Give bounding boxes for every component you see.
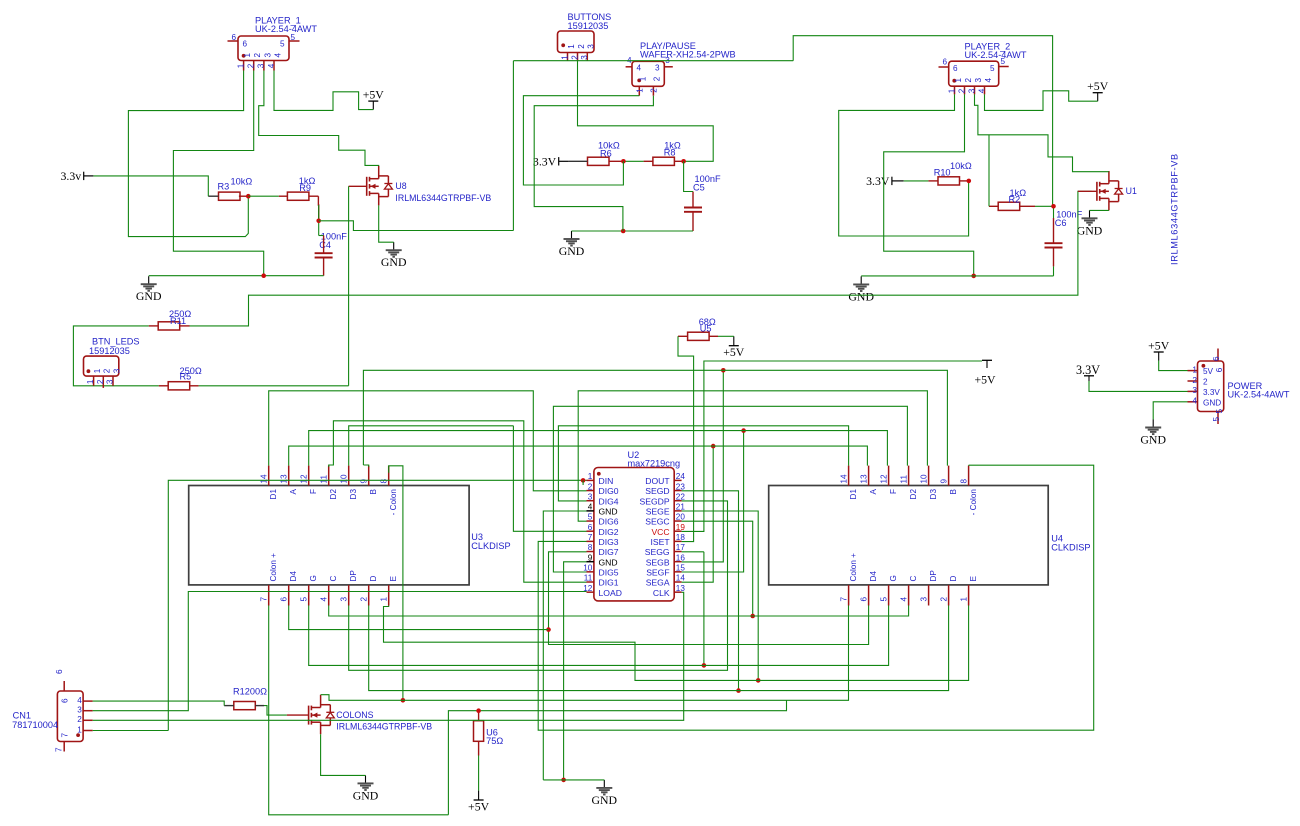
svg-text:1: 1 [954,78,963,83]
svg-text:A: A [869,488,878,494]
wire right ground rail [861,275,1053,277]
wire SEGE riser [682,511,759,680]
junction R3 right [246,194,251,199]
svg-text:SEGD: SEGD [645,486,669,496]
svg-text:GND: GND [592,793,618,807]
svg-text:7: 7 [61,733,70,738]
svg-text:10kΩ: 10kΩ [950,161,972,171]
svg-text:1: 1 [639,76,648,81]
3.3V supply right [866,174,892,188]
wire F bus [309,431,888,466]
wire VCC to +5V [682,361,982,531]
svg-text:GND: GND [353,788,379,802]
ground at POWER [1140,420,1166,447]
svg-text:4: 4 [637,64,642,73]
svg-text:2: 2 [96,379,105,384]
svg-text:D1: D1 [269,489,278,500]
svg-text:3: 3 [580,55,589,60]
svg-text:8: 8 [380,479,389,484]
connector CN1 781710004 [57,681,92,752]
wire SEGD riser [682,491,739,691]
svg-text:C: C [909,576,918,582]
svg-text:14: 14 [260,474,269,484]
svg-text:D3: D3 [929,489,938,500]
wire U3 D3 bus [349,426,514,466]
svg-text:+5V: +5V [723,345,745,359]
resistor U6 75ohm vertical [474,721,484,742]
svg-text:4: 4 [320,597,329,602]
svg-text:24: 24 [676,472,686,481]
wire mid ground rail to C5 [572,230,694,232]
wire U5 to +5V [718,335,734,337]
junction DIG7 D4 [546,627,551,632]
svg-text:250Ω: 250Ω [169,309,191,319]
wire BUTTONS pin2 to R8 node [578,61,714,162]
svg-text:DIG0: DIG0 [599,486,619,496]
wire G bus [309,606,889,666]
svg-text:21: 21 [676,503,686,512]
svg-text:2: 2 [957,88,966,93]
svg-text:18: 18 [676,533,686,542]
svg-text:COLONS: COLONS [336,710,373,720]
junction R10 right [967,179,972,184]
svg-text:3: 3 [919,597,928,602]
svg-text:3.3V: 3.3V [866,174,890,188]
junction U6 top [476,708,481,713]
svg-text:6: 6 [588,523,593,532]
svg-text:10: 10 [340,474,349,484]
svg-text:IRLML6344GTRPBF-VB: IRLML6344GTRPBF-VB [336,722,432,732]
svg-text:2: 2 [77,715,82,724]
wire A bus [289,446,868,466]
wire 3.3V right to R10 [904,180,929,182]
wire 3.3V to R6 lead [623,160,643,162]
svg-text:2: 2 [360,597,369,602]
svg-text:GND: GND [559,244,585,258]
svg-text:2: 2 [253,53,262,58]
svg-text:Colon +: Colon + [269,553,278,582]
wire PLAYER_2 pin2 to right ground rail [884,94,974,276]
svg-text:9: 9 [360,479,369,484]
svg-text:4: 4 [267,63,276,68]
left pins of U2 [583,472,622,598]
wire CN1 pin2 to CLK [93,592,684,720]
svg-text:D: D [949,576,958,582]
wire PLAYER_1 pin2 to ground rail [173,71,263,276]
svg-text:DIN: DIN [599,476,614,486]
wire DIG5 to U4 D2 [553,406,907,572]
+5V near PLAYER_2 [1087,79,1109,101]
svg-text:4: 4 [977,88,986,93]
ground at U8 source [381,242,407,269]
wire colon anode bus [448,700,786,815]
svg-text:15912035: 15912035 [89,346,130,356]
3.3V supply at POWER [1076,363,1100,381]
connector PLAYER_1 UK-2.54-4AWT [228,36,300,71]
display U4 CLKDISP [769,486,1048,585]
svg-text:SEGDP: SEGDP [640,496,670,506]
svg-text:3: 3 [263,53,272,58]
svg-text:- Colon: - Colon [389,489,398,516]
wire CN1 pin4 to R1 [93,701,225,706]
junction R2 right [1051,204,1056,209]
svg-text:12: 12 [879,474,888,484]
wire DIG7 riser [549,552,869,645]
svg-text:6: 6 [243,40,248,49]
svg-text:3.3v: 3.3v [61,169,82,183]
resistor U5 68ohm [688,332,710,340]
wire SEGC riser [682,521,753,616]
resistor R10 10k [938,177,960,185]
svg-text:3: 3 [257,63,266,68]
wire PLAYER_2 pin1 net to R10 [839,94,969,236]
svg-text:2: 2 [1192,376,1197,385]
svg-text:11: 11 [584,574,593,583]
+5V at U5 [723,336,745,359]
svg-text:16: 16 [676,553,686,562]
svg-text:75Ω: 75Ω [486,736,503,746]
wire SEGF riser [682,431,744,572]
svg-text:SEGB: SEGB [646,557,670,567]
svg-text:D2: D2 [329,489,338,500]
display U3 CLKDISP [189,486,469,585]
wire DIG4 to U4 D1 [558,426,848,501]
wire bottom ground rail [543,779,604,781]
capacitor C6 100nF [1045,243,1063,247]
wire U3 D2 to DIG1 [329,421,587,582]
wire BUTTONS net across PLAY/PAUSE [513,60,793,62]
svg-text:1: 1 [77,725,82,734]
svg-text:7: 7 [588,533,593,542]
svg-text:3: 3 [587,44,596,49]
wire SEGG riser [682,551,704,553]
wire COLONS source to ground [321,734,366,775]
svg-text:1: 1 [959,597,968,602]
svg-text:11: 11 [899,475,908,484]
wire PLAYER_1 pin3 to U8 drain [259,71,379,167]
svg-text:6: 6 [280,597,289,602]
wire colon drain bus [321,606,849,701]
svg-text:2: 2 [650,88,659,93]
svg-text:7: 7 [839,597,848,602]
junction SEGE [756,678,761,683]
wire +5V to POWER pin1 [1159,361,1188,371]
svg-text:SEGA: SEGA [646,578,670,588]
wire SEGA riser [682,446,714,582]
svg-text:G: G [309,575,318,581]
wire DIG6 to U4 D3 [578,391,927,521]
junction mid rail at C6 branch [621,229,626,234]
svg-text:CLKDISP: CLKDISP [471,541,510,551]
svg-text:D: D [369,576,378,582]
svg-text:11: 11 [320,475,329,484]
svg-text:DIG7: DIG7 [599,547,619,557]
connector BUTTONS 15912035 [558,31,595,61]
svg-text:LOAD: LOAD [599,588,622,598]
svg-text:DP: DP [349,570,358,582]
svg-text:1kΩ: 1kΩ [664,141,681,151]
resistor R3 10k [219,192,241,200]
svg-text:A: A [289,488,298,494]
pins 1-3 of BTN_LEDS wires [93,376,95,386]
svg-text:15912035: 15912035 [568,21,609,31]
svg-text:2: 2 [939,597,948,602]
wire PLAY/PAUSE pin2 to mid rail [534,96,653,231]
wire U3 colon minus through box [389,466,403,701]
wire R3 to R9 [248,195,278,197]
svg-text:DIG2: DIG2 [599,527,619,537]
svg-text:68Ω: 68Ω [699,317,716,327]
svg-text:G: G [889,575,898,581]
svg-text:max7219cng: max7219cng [628,458,681,468]
svg-text:1kΩ: 1kΩ [299,176,316,186]
wire D1 to DIG0 [269,391,587,491]
wire B bus [363,370,947,465]
wire R9 to gate node [317,196,319,221]
resistor R5 250ohm [168,382,190,390]
wire LOAD bus [93,592,587,711]
svg-text:10kΩ: 10kΩ [598,141,620,151]
wire U3 pin9 jog [363,465,368,467]
svg-text:3: 3 [1192,386,1197,395]
svg-text:GND: GND [381,255,407,269]
svg-text:4: 4 [984,78,993,83]
wire CN1 pin1 [93,730,169,732]
svg-text:GND: GND [1203,399,1221,408]
3.3V supply mid [533,154,559,168]
resistor R11 250ohm [158,322,180,330]
wire SEGB riser [682,370,724,562]
capacitor C5 100nF [684,208,702,212]
svg-text:20: 20 [676,513,686,522]
svg-text:7: 7 [260,597,269,602]
svg-text:+5V: +5V [1087,79,1109,93]
wire DIN bus [168,480,586,730]
wire E bus [384,606,969,681]
wire ground rail left [149,275,324,277]
svg-text:8: 8 [959,479,968,484]
svg-text:SEGG: SEGG [645,547,670,557]
svg-text:9: 9 [939,479,948,484]
svg-text:WAFER-XH2.54-2PWB: WAFER-XH2.54-2PWB [640,50,736,60]
wire ISET to U5 [678,336,694,541]
connector POWER UK-2.54-4AWT [1188,349,1224,425]
bottom pins of U4 [839,553,977,606]
+5V at POWER [1148,339,1170,361]
svg-text:3: 3 [974,78,983,83]
svg-text:ISET: ISET [650,537,670,547]
svg-text:2: 2 [247,63,256,68]
svg-text:3: 3 [967,88,976,93]
transistor U1 IRLML6344GTRPBF-VB [1097,171,1123,210]
resistor R2 1k [998,202,1020,210]
ground near C4 [136,276,162,303]
+5V near PLAYER_1 [363,88,385,110]
svg-text:B: B [949,488,958,494]
svg-text:19: 19 [676,523,686,532]
junction R8 right [681,159,686,164]
svg-text:GND: GND [1140,433,1166,447]
IC U2 max7219cng [594,468,674,601]
junction SEGC [750,614,755,619]
+5V mid right [974,360,996,386]
svg-text:15: 15 [676,564,686,573]
svg-text:5: 5 [1212,417,1221,422]
svg-text:6: 6 [859,597,868,602]
svg-text:D4: D4 [289,571,298,582]
svg-text:DIG3: DIG3 [599,537,619,547]
svg-text:13: 13 [676,584,686,593]
svg-text:DP: DP [929,570,938,582]
svg-text:2: 2 [588,482,593,491]
svg-text:1: 1 [93,368,102,373]
svg-text:7: 7 [55,747,64,752]
svg-text:3: 3 [106,379,115,384]
svg-text:250Ω: 250Ω [180,366,202,376]
svg-text:6: 6 [61,698,70,703]
bottom pins of U3 [260,553,398,606]
svg-text:D2: D2 [909,489,918,500]
wire SEGDP to DP bus [349,501,728,670]
svg-text:10kΩ: 10kΩ [231,176,253,186]
svg-text:1: 1 [86,379,95,384]
svg-text:Colon +: Colon + [849,553,858,582]
svg-text:UK-2.54-4AWT: UK-2.54-4AWT [1228,390,1290,400]
svg-text:C5: C5 [693,182,705,192]
svg-text:R1200Ω: R1200Ω [233,686,267,696]
junction SEGA [711,444,716,449]
svg-text:2: 2 [964,78,973,83]
svg-text:5: 5 [1215,409,1224,414]
connector PLAY/PAUSE WAFER-XH2.54-2PWB [626,61,673,95]
svg-text:F: F [309,489,318,494]
wire GND pin9 riser [564,562,587,780]
connector BTN_LEDS 15912035 [84,356,119,376]
wire R11 bus [190,191,1092,326]
svg-text:+5V: +5V [468,799,490,813]
capacitor C4 100nF [315,253,333,257]
wire U3 D4 bus [289,606,549,630]
wire DIG3 to U4 colon minus [538,465,1093,730]
svg-text:3: 3 [655,64,660,73]
svg-text:781710004: 781710004 [12,720,58,730]
svg-text:3: 3 [77,706,82,715]
svg-text:+5V: +5V [974,373,996,387]
svg-text:+5V: +5V [1148,339,1170,353]
svg-text:1kΩ: 1kΩ [1010,188,1027,198]
wire 3.3V to POWER pin3 [1089,381,1188,391]
svg-text:5V: 5V [1203,367,1214,376]
svg-text:14: 14 [839,474,848,484]
svg-text:4: 4 [77,696,82,705]
svg-text:GND: GND [136,289,162,303]
wire D3 bus corner to DIG2 [513,426,586,532]
svg-text:IRLML6344GTRPBF-VB: IRLML6344GTRPBF-VB [1170,153,1180,265]
svg-text:3: 3 [588,492,593,501]
transistor COLONS IRLML6344GTRPBF-VB [309,695,335,734]
svg-text:CLKDISP: CLKDISP [1051,542,1090,552]
wire PLAYER_2 pin4 to +5V [985,91,1098,111]
svg-text:2: 2 [103,368,112,373]
svg-text:DIG4: DIG4 [599,496,619,506]
svg-text:1: 1 [1192,365,1197,374]
wire U8 gate to R5 [349,185,367,187]
wire POWER pin4 to ground [1153,402,1187,420]
svg-text:1: 1 [560,55,569,60]
wire U6 bottom to +5V [478,756,480,791]
svg-text:SEGE: SEGE [646,506,670,516]
wire PLAYER_1 pin1 to R3 node [128,71,248,237]
wire C bus [329,606,909,617]
junction R6 right [621,159,626,164]
svg-text:D4: D4 [869,571,878,582]
svg-text:3: 3 [112,368,121,373]
svg-text:14: 14 [676,574,686,583]
wire U3 colon plus [269,606,449,815]
svg-text:+5V: +5V [363,88,385,102]
svg-text:3.3V: 3.3V [1203,388,1220,397]
svg-text:5: 5 [588,513,593,522]
svg-text:1: 1 [947,88,956,93]
+5V at U6 [468,791,490,814]
junction R9 C4 node [316,219,321,224]
wire R2 left riser [988,135,990,207]
svg-text:4: 4 [274,53,283,58]
svg-text:2: 2 [570,55,579,60]
svg-text:6: 6 [953,64,958,73]
wire R11 left to BTN_LEDS pin1 [73,326,158,386]
wire U8 source to ground [379,205,394,242]
right pins of U2 [640,472,686,598]
svg-text:GND: GND [599,506,618,516]
svg-text:VCC: VCC [651,527,669,537]
svg-text:DIG5: DIG5 [599,567,619,577]
svg-text:1: 1 [588,472,593,481]
svg-text:6: 6 [231,33,236,42]
svg-text:E: E [969,576,978,582]
svg-text:5: 5 [990,64,995,73]
resistor R8 1k [653,157,675,165]
wire BUTTONS net to C6 top [793,36,1052,207]
wire R6 node to PLAY/PAUSE pin1 [523,96,639,185]
svg-text:R10: R10 [934,168,951,178]
svg-text:1: 1 [635,88,644,93]
wire D bus [369,606,949,691]
junction DIN [581,478,586,483]
svg-text:3: 3 [340,597,349,602]
svg-text:U1: U1 [1126,186,1137,196]
svg-text:C: C [329,576,338,582]
svg-text:17: 17 [676,543,686,552]
3.3v supply left [61,169,84,183]
svg-text:4: 4 [588,503,593,512]
svg-text:1: 1 [567,44,576,49]
svg-text:DIG6: DIG6 [599,517,619,527]
svg-text:2: 2 [577,44,586,49]
svg-text:22: 22 [676,492,686,501]
junction SEGG [702,663,707,668]
junction colon bus [401,698,406,703]
wire R1 to COLONS gate [264,706,287,716]
svg-text:10: 10 [919,474,928,484]
svg-text:C4: C4 [319,240,331,250]
wire R5 right to U8 gate riser [199,385,349,387]
svg-text:10: 10 [583,564,593,573]
ground at U1 source [1077,210,1103,237]
junction SEGF [741,428,746,433]
transistor U8 IRLML6344GTRPBF-VB [367,166,393,205]
svg-text:4: 4 [899,597,908,602]
